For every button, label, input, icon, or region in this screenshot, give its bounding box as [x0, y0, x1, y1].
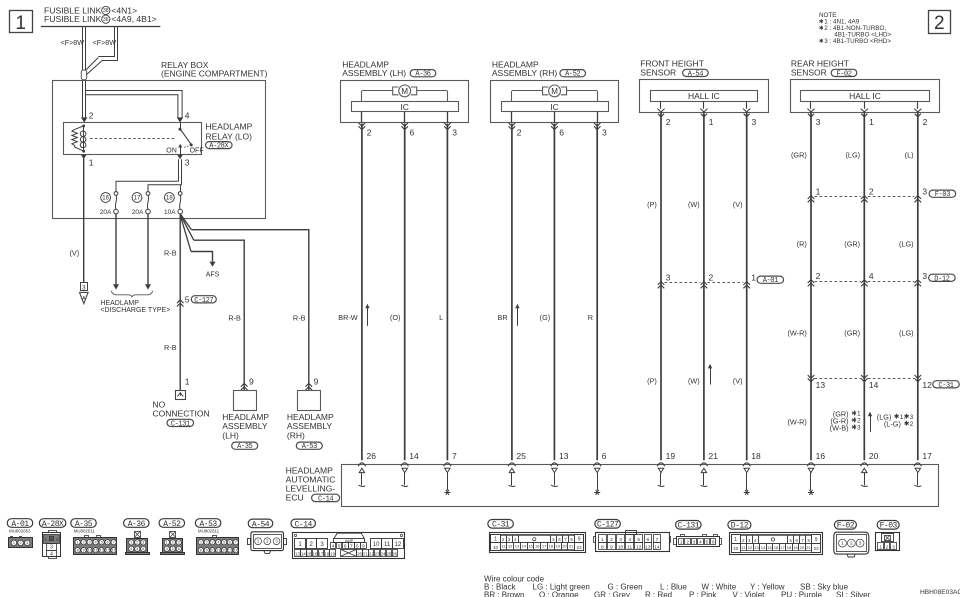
svg-text:C-127: C-127	[194, 297, 213, 305]
svg-text:IC: IC	[550, 102, 559, 112]
svg-text:(W-B): (W-B)	[830, 423, 849, 432]
svg-text:21: 21	[709, 451, 719, 461]
svg-text:(P): (P)	[647, 200, 657, 209]
svg-text:5: 5	[637, 537, 640, 543]
svg-text:BR : Brown: BR : Brown	[484, 590, 524, 597]
svg-text:3: 3	[602, 127, 607, 137]
svg-text:12: 12	[100, 548, 104, 552]
svg-text:21: 21	[363, 551, 368, 556]
svg-text:3: 3	[82, 285, 86, 292]
svg-text:14: 14	[869, 380, 879, 390]
svg-text:9: 9	[362, 544, 365, 549]
svg-text:3: 3	[922, 187, 927, 197]
svg-text:ASSEMBLY (LH): ASSEMBLY (LH)	[342, 68, 406, 78]
svg-text:6: 6	[712, 539, 715, 544]
svg-text:R-B: R-B	[228, 313, 241, 322]
svg-text:2: 2	[869, 187, 874, 197]
svg-text:V : Violet: V : Violet	[733, 590, 766, 597]
svg-text:IC: IC	[400, 102, 409, 112]
svg-text:26: 26	[392, 551, 397, 556]
svg-text:1: 1	[200, 540, 202, 544]
svg-text:15: 15	[767, 545, 772, 550]
svg-text:6: 6	[107, 540, 109, 544]
svg-text:A-01: A-01	[763, 277, 778, 285]
svg-text:15: 15	[528, 544, 533, 549]
svg-text:5: 5	[136, 547, 138, 551]
svg-text:3: 3	[178, 541, 180, 545]
svg-text:1: 1	[185, 377, 190, 387]
svg-text:24: 24	[381, 551, 386, 556]
svg-text:6: 6	[559, 127, 564, 137]
svg-text:7: 7	[113, 540, 115, 544]
svg-text:5: 5	[101, 540, 103, 544]
svg-text:14: 14	[654, 544, 660, 550]
svg-text:A-28X: A-28X	[42, 520, 64, 529]
svg-text:1: 1	[601, 537, 604, 543]
svg-text:HBH08E03AC: HBH08E03AC	[920, 589, 960, 596]
svg-text:AFS: AFS	[206, 271, 220, 278]
svg-text:3: 3	[142, 541, 144, 545]
svg-text:ASSEMBLY (RH): ASSEMBLY (RH)	[492, 68, 558, 78]
svg-text:C-14: C-14	[295, 520, 313, 529]
svg-text:(P): (P)	[647, 377, 657, 386]
svg-text:C-131: C-131	[678, 522, 700, 531]
svg-text:FUSIBLE LINK: FUSIBLE LINK	[44, 14, 102, 24]
svg-text:16: 16	[313, 551, 318, 556]
svg-text:(L): (L)	[905, 150, 914, 159]
svg-text:A-52: A-52	[163, 520, 181, 529]
svg-text:1: 1	[77, 540, 79, 544]
svg-text:15: 15	[307, 551, 312, 556]
svg-text:(V): (V)	[733, 200, 743, 209]
svg-text:11: 11	[216, 548, 220, 552]
svg-text:3: 3	[816, 117, 821, 127]
svg-text:6: 6	[647, 537, 650, 543]
svg-text:A-35: A-35	[237, 443, 252, 451]
svg-text:C-131: C-131	[171, 420, 190, 428]
svg-text:36: 36	[103, 17, 109, 23]
svg-text:2: 2	[923, 117, 928, 127]
svg-text:(GR): (GR)	[791, 150, 807, 159]
svg-text:4: 4	[332, 544, 335, 549]
svg-text:(O): (O)	[390, 313, 401, 322]
svg-text:20A: 20A	[132, 209, 144, 216]
svg-text:22: 22	[369, 551, 374, 556]
svg-text:2: 2	[89, 111, 94, 121]
svg-text:23: 23	[375, 551, 380, 556]
svg-text:6: 6	[602, 451, 607, 461]
svg-text:10: 10	[211, 548, 215, 552]
svg-text:(LG): (LG)	[845, 150, 860, 159]
svg-text:17: 17	[134, 196, 141, 202]
svg-text:5: 5	[223, 540, 225, 544]
svg-text:1: 1	[869, 117, 874, 127]
svg-text:MU802611: MU802611	[198, 529, 220, 534]
svg-text:HEADLAMP: HEADLAMP	[100, 300, 139, 307]
svg-text:9: 9	[815, 537, 818, 543]
svg-text:8: 8	[77, 548, 79, 552]
svg-text:13: 13	[228, 548, 232, 552]
svg-text:(ENGINE COMPARTMENT): (ENGINE COMPARTMENT)	[161, 69, 268, 79]
svg-text:C-127: C-127	[597, 521, 619, 530]
svg-text:R-B: R-B	[293, 313, 306, 322]
svg-text:19: 19	[666, 451, 676, 461]
svg-text:10: 10	[733, 546, 739, 551]
svg-text:16: 16	[816, 451, 826, 461]
svg-text:D-12: D-12	[731, 522, 749, 531]
svg-text:18: 18	[324, 551, 329, 556]
svg-text:MU802611: MU802611	[74, 529, 96, 534]
svg-text:7: 7	[452, 451, 457, 461]
svg-text:(G): (G)	[540, 313, 551, 322]
svg-text:3: 3	[619, 537, 622, 543]
svg-text:A-01: A-01	[11, 520, 29, 529]
svg-text:10: 10	[88, 548, 92, 552]
svg-text:22: 22	[814, 546, 820, 551]
svg-text:3: 3	[185, 158, 190, 168]
svg-text:25: 25	[517, 451, 527, 461]
svg-text:D-12: D-12	[934, 275, 949, 283]
svg-text:14: 14	[761, 545, 766, 550]
svg-text:PU : Purple: PU : Purple	[781, 590, 822, 597]
svg-text:(GR): (GR)	[844, 328, 860, 337]
svg-text:HEADLAMP: HEADLAMP	[206, 122, 253, 132]
svg-text:3: 3	[50, 545, 53, 551]
svg-text:13: 13	[816, 380, 826, 390]
svg-text:(R): (R)	[797, 239, 807, 248]
svg-text:18: 18	[787, 545, 792, 550]
svg-text:3: 3	[26, 541, 28, 545]
svg-text:P : Pink: P : Pink	[689, 590, 717, 597]
svg-text:A-52: A-52	[565, 71, 580, 79]
svg-text:A-53: A-53	[302, 443, 317, 451]
svg-text:M: M	[401, 87, 408, 96]
svg-text:2: 2	[709, 273, 714, 283]
svg-text:HALL IC: HALL IC	[688, 91, 720, 101]
svg-text:MU802663: MU802663	[9, 529, 31, 534]
svg-text:(V): (V)	[733, 377, 743, 386]
svg-text:2: 2	[934, 13, 945, 34]
svg-text:4: 4	[166, 547, 168, 551]
svg-text:L: L	[439, 313, 443, 322]
svg-text:<F>8W: <F>8W	[93, 38, 117, 47]
svg-text:12: 12	[636, 544, 642, 550]
svg-text:2: 2	[136, 541, 138, 545]
svg-text:O : Orange: O : Orange	[539, 590, 579, 597]
svg-text:3: 3	[922, 271, 927, 281]
svg-text:1: 1	[130, 541, 132, 545]
svg-text:4: 4	[699, 539, 702, 544]
svg-text:OFF: OFF	[190, 148, 204, 155]
svg-text:2: 2	[686, 539, 689, 544]
svg-text:R-B: R-B	[164, 248, 177, 257]
svg-text:R: R	[588, 313, 593, 322]
svg-text:11: 11	[94, 548, 98, 552]
svg-text:13: 13	[754, 545, 759, 550]
svg-text:6: 6	[229, 540, 231, 544]
svg-text:<4A9, 4B1>: <4A9, 4B1>	[111, 14, 156, 24]
svg-text:A-54: A-54	[688, 70, 703, 78]
svg-text:18: 18	[751, 451, 761, 461]
svg-text:17: 17	[319, 551, 324, 556]
svg-text:22: 22	[577, 545, 583, 550]
svg-text:6: 6	[344, 544, 347, 549]
svg-text:11: 11	[384, 542, 391, 548]
svg-text:ON: ON	[166, 148, 177, 155]
svg-text:C-14: C-14	[318, 495, 333, 503]
svg-text:14: 14	[301, 551, 306, 556]
svg-text:C-31: C-31	[492, 521, 510, 530]
svg-text:9: 9	[83, 548, 85, 552]
svg-text:14: 14	[112, 548, 116, 552]
svg-text:5: 5	[172, 547, 174, 551]
svg-text:F-03: F-03	[880, 522, 898, 531]
svg-text:5: 5	[338, 544, 341, 549]
svg-text:9: 9	[578, 536, 581, 542]
svg-text:3 : 4B1-TURBO <RHD>: 3 : 4B1-TURBO <RHD>	[824, 38, 891, 45]
svg-text:1: 1	[89, 158, 94, 168]
svg-text:21: 21	[806, 545, 811, 550]
svg-text:20A: 20A	[100, 209, 112, 216]
svg-text:GR : Grey: GR : Grey	[594, 590, 630, 597]
svg-text:18: 18	[549, 544, 554, 549]
svg-text:8: 8	[356, 544, 359, 549]
svg-text:12: 12	[922, 380, 932, 390]
svg-text:16: 16	[102, 196, 109, 202]
svg-text:20: 20	[869, 451, 879, 461]
svg-text:16: 16	[535, 544, 540, 549]
svg-text:10: 10	[618, 544, 624, 550]
svg-text:SI : Silver: SI : Silver	[836, 590, 871, 597]
svg-text:R : Red: R : Red	[645, 590, 672, 597]
svg-text:R-B: R-B	[164, 343, 177, 352]
svg-text:(LG): (LG)	[899, 239, 914, 248]
svg-text:4: 4	[130, 547, 132, 551]
svg-text:10: 10	[373, 542, 380, 548]
svg-text:(V): (V)	[69, 248, 79, 257]
svg-text:12: 12	[395, 542, 402, 548]
svg-text:1: 1	[709, 117, 714, 127]
svg-text:A-36: A-36	[415, 71, 430, 79]
svg-text:2: 2	[206, 540, 208, 544]
svg-text:2: 2	[517, 127, 522, 137]
svg-text:F-02: F-02	[836, 70, 851, 78]
svg-text:2: 2	[172, 541, 174, 545]
svg-text:3: 3	[752, 117, 757, 127]
svg-text:A-53: A-53	[199, 520, 217, 529]
svg-text:12: 12	[508, 544, 513, 549]
svg-text:19: 19	[555, 544, 560, 549]
svg-text:A: A	[82, 296, 86, 302]
svg-text:A-36: A-36	[128, 520, 146, 529]
svg-text:7: 7	[350, 544, 353, 549]
svg-text:C-31: C-31	[938, 382, 953, 390]
svg-text:A-35: A-35	[75, 520, 93, 529]
svg-text:(W): (W)	[688, 377, 700, 386]
svg-text:F-03: F-03	[935, 191, 950, 199]
svg-text:3: 3	[212, 540, 214, 544]
svg-text:M: M	[551, 87, 558, 96]
svg-text:20: 20	[562, 544, 567, 549]
svg-text:1: 1	[15, 13, 26, 34]
svg-text:2: 2	[610, 537, 613, 543]
svg-text:4: 4	[869, 271, 874, 281]
svg-text:6: 6	[142, 547, 144, 551]
svg-text:1: 1	[680, 539, 683, 544]
svg-text:(GR): (GR)	[844, 239, 860, 248]
svg-text:2: 2	[20, 541, 22, 545]
svg-text:2: 2	[367, 127, 372, 137]
svg-text:(LG): (LG)	[899, 328, 914, 337]
svg-text:8: 8	[200, 548, 202, 552]
svg-text:9: 9	[314, 377, 319, 387]
svg-text:17: 17	[922, 451, 932, 461]
svg-text:3: 3	[910, 414, 914, 421]
svg-text:(L-G): (L-G)	[884, 420, 901, 429]
svg-text:<DISCHARGE TYPE>: <DISCHARGE TYPE>	[100, 307, 170, 314]
svg-text:2: 2	[816, 271, 821, 281]
svg-text:13: 13	[295, 551, 300, 556]
svg-text:BR-W: BR-W	[338, 313, 358, 322]
svg-text:19: 19	[793, 545, 798, 550]
svg-text:17: 17	[542, 544, 547, 549]
svg-text:1: 1	[751, 273, 756, 283]
svg-text:F-02: F-02	[837, 522, 855, 531]
svg-text:A-28X: A-28X	[209, 143, 229, 151]
svg-text:RELAY (LO): RELAY (LO)	[206, 131, 253, 141]
svg-text:19: 19	[330, 551, 335, 556]
svg-text:38: 38	[103, 8, 109, 14]
svg-text:SENSOR: SENSOR	[640, 67, 676, 77]
svg-text:4: 4	[95, 540, 97, 544]
svg-text:2: 2	[886, 544, 889, 550]
svg-text:(W): (W)	[688, 200, 700, 209]
svg-text:2: 2	[857, 418, 861, 425]
svg-text:25: 25	[386, 551, 391, 556]
svg-text:5: 5	[706, 539, 709, 544]
svg-text:4: 4	[217, 540, 219, 544]
svg-text:BR: BR	[498, 313, 508, 322]
svg-text:13: 13	[106, 548, 110, 552]
svg-text:9: 9	[206, 548, 208, 552]
svg-text:20: 20	[357, 551, 362, 556]
svg-text:7: 7	[235, 540, 237, 544]
svg-text:1: 1	[816, 187, 821, 197]
svg-text:(W-R): (W-R)	[787, 328, 806, 337]
svg-text:6: 6	[178, 547, 180, 551]
svg-text:10A: 10A	[164, 209, 176, 216]
svg-text:26: 26	[367, 451, 377, 461]
svg-text:11: 11	[627, 544, 632, 550]
svg-text:3: 3	[666, 273, 671, 283]
svg-text:7: 7	[656, 537, 659, 543]
svg-text:HALL IC: HALL IC	[849, 91, 881, 101]
svg-text:1: 1	[494, 536, 497, 542]
svg-text:SENSOR: SENSOR	[791, 67, 827, 77]
svg-text:A-54: A-54	[252, 520, 270, 529]
svg-text:(LH): (LH)	[222, 430, 239, 440]
svg-text:9: 9	[249, 377, 254, 387]
svg-text:3: 3	[892, 544, 895, 550]
svg-text:3: 3	[89, 540, 91, 544]
svg-text:18: 18	[166, 196, 173, 202]
svg-text:3: 3	[857, 425, 861, 432]
svg-text:1: 1	[879, 544, 882, 550]
svg-text:ECU: ECU	[286, 493, 304, 503]
svg-text:2: 2	[83, 540, 85, 544]
svg-text:1: 1	[166, 541, 168, 545]
svg-text:1: 1	[734, 537, 737, 543]
svg-text:8: 8	[601, 544, 604, 550]
svg-text:2: 2	[666, 117, 671, 127]
svg-text:<F>8W: <F>8W	[61, 38, 85, 47]
svg-text:(W-R): (W-R)	[787, 418, 806, 427]
svg-text:CONNECTION: CONNECTION	[153, 409, 210, 419]
svg-text:13: 13	[645, 544, 651, 550]
svg-text:5: 5	[185, 294, 190, 304]
svg-text:3: 3	[693, 539, 696, 544]
svg-text:16: 16	[774, 545, 779, 550]
svg-text:14: 14	[234, 548, 238, 552]
svg-text:14: 14	[409, 451, 419, 461]
svg-text:9: 9	[610, 544, 613, 550]
svg-text:17: 17	[780, 545, 785, 550]
svg-text:21: 21	[569, 544, 574, 549]
svg-text:1: 1	[13, 541, 15, 545]
svg-text:3: 3	[452, 127, 457, 137]
svg-text:12: 12	[222, 548, 226, 552]
svg-text:13: 13	[515, 544, 520, 549]
svg-text:13: 13	[559, 451, 569, 461]
svg-text:14: 14	[522, 544, 527, 549]
svg-text:10: 10	[493, 545, 499, 550]
svg-text:(RH): (RH)	[287, 430, 305, 440]
svg-text:4: 4	[628, 537, 631, 543]
svg-text:20: 20	[800, 545, 805, 550]
svg-text:2: 2	[910, 421, 914, 428]
svg-text:6: 6	[410, 127, 415, 137]
svg-text:12: 12	[748, 545, 753, 550]
svg-text:4: 4	[185, 111, 190, 121]
